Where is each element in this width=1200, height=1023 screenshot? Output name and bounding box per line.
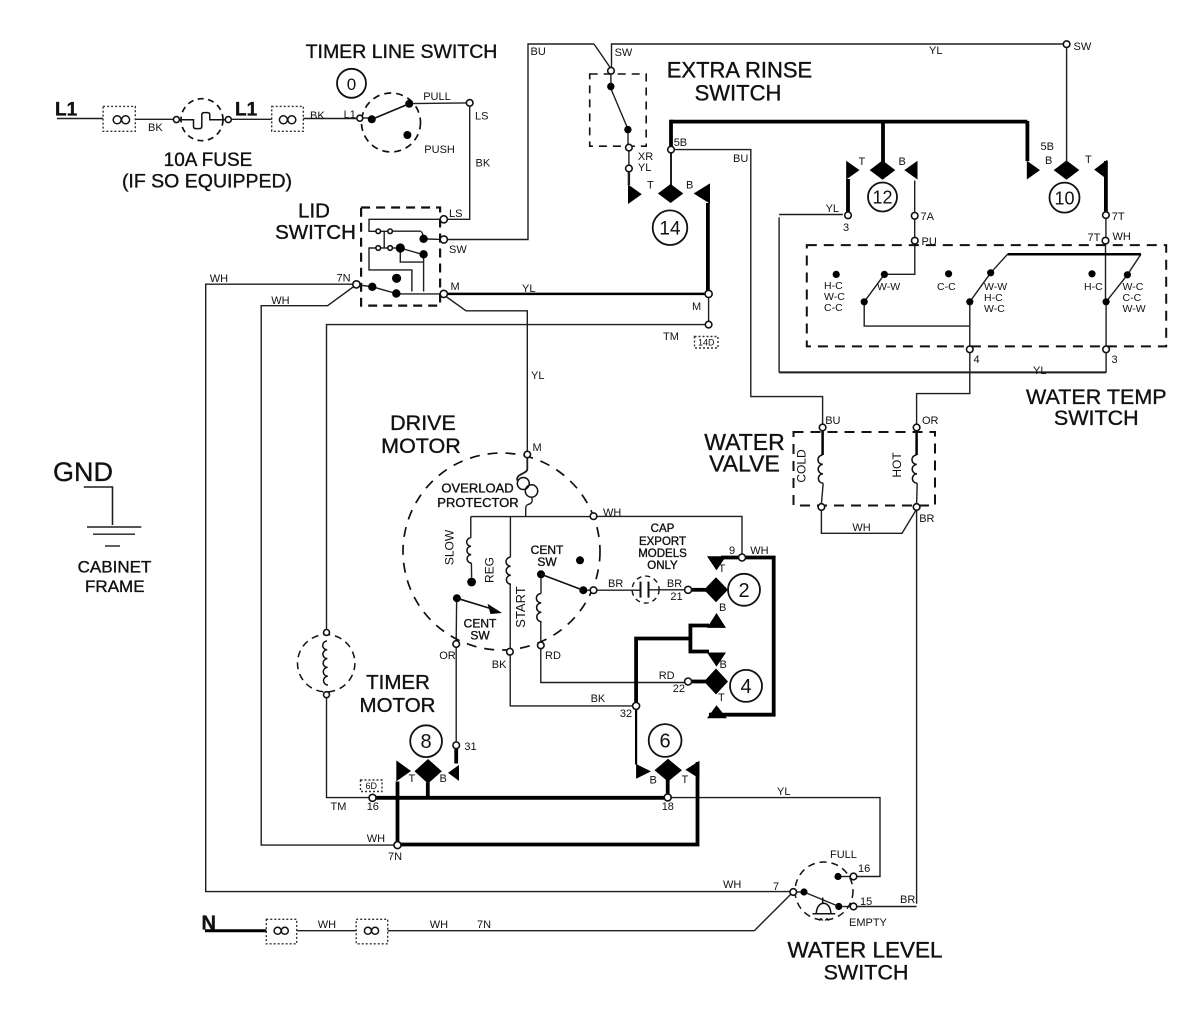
svg-text:7N: 7N bbox=[337, 273, 351, 285]
svg-text:WH: WH bbox=[367, 833, 385, 845]
svg-text:SW: SW bbox=[615, 47, 633, 59]
svg-text:8: 8 bbox=[421, 731, 432, 753]
svg-text:T: T bbox=[718, 692, 725, 704]
svg-text:H-C: H-C bbox=[1084, 281, 1103, 293]
svg-text:B: B bbox=[719, 602, 726, 614]
svg-text:MODELS: MODELS bbox=[638, 548, 687, 560]
svg-text:B: B bbox=[899, 156, 906, 168]
svg-text:YL: YL bbox=[777, 786, 790, 798]
svg-text:BK: BK bbox=[310, 110, 325, 122]
svg-text:BR: BR bbox=[900, 894, 915, 906]
svg-text:T: T bbox=[719, 563, 726, 575]
svg-text:RD: RD bbox=[659, 670, 675, 682]
svg-text:RD: RD bbox=[545, 650, 561, 662]
svg-text:SW: SW bbox=[537, 555, 557, 569]
svg-text:HOT: HOT bbox=[890, 452, 904, 478]
svg-text:YL: YL bbox=[638, 162, 651, 174]
svg-text:OVERLOAD: OVERLOAD bbox=[441, 481, 513, 496]
svg-text:18: 18 bbox=[662, 801, 674, 813]
svg-text:MOTOR: MOTOR bbox=[381, 434, 461, 458]
svg-text:SLOW: SLOW bbox=[443, 529, 457, 565]
svg-text:START: START bbox=[513, 586, 528, 627]
svg-text:BU: BU bbox=[825, 415, 840, 427]
svg-text:M: M bbox=[533, 442, 542, 454]
svg-text:WH: WH bbox=[603, 507, 621, 519]
svg-text:B: B bbox=[440, 773, 447, 785]
svg-text:BK: BK bbox=[591, 693, 606, 705]
svg-text:REG: REG bbox=[483, 557, 497, 583]
svg-text:B: B bbox=[720, 659, 727, 671]
svg-text:ONLY: ONLY bbox=[647, 560, 678, 572]
svg-text:L1: L1 bbox=[235, 100, 258, 121]
svg-text:2: 2 bbox=[738, 580, 749, 602]
svg-text:7A: 7A bbox=[921, 211, 935, 223]
svg-text:CABINET: CABINET bbox=[78, 558, 152, 577]
svg-text:16: 16 bbox=[858, 863, 870, 875]
svg-text:WH: WH bbox=[1113, 231, 1131, 243]
svg-text:M: M bbox=[451, 281, 460, 293]
svg-text:YL: YL bbox=[1033, 365, 1046, 377]
svg-text:YL: YL bbox=[522, 283, 535, 295]
svg-text:BK: BK bbox=[148, 122, 163, 134]
svg-text:MOTOR: MOTOR bbox=[360, 694, 436, 717]
svg-text:9: 9 bbox=[729, 545, 735, 557]
svg-text:BU: BU bbox=[531, 46, 546, 58]
svg-text:SWITCH: SWITCH bbox=[695, 81, 782, 106]
svg-text:CAP: CAP bbox=[651, 523, 675, 535]
svg-text:7: 7 bbox=[773, 881, 779, 893]
svg-text:5B: 5B bbox=[1041, 141, 1054, 153]
svg-text:T: T bbox=[409, 773, 416, 785]
svg-text:YL: YL bbox=[826, 203, 839, 215]
svg-text:7T: 7T bbox=[1112, 211, 1125, 223]
svg-text:YL: YL bbox=[531, 370, 544, 382]
svg-text:OR: OR bbox=[439, 650, 456, 662]
svg-text:VALVE: VALVE bbox=[709, 451, 780, 477]
svg-text:WATER LEVEL: WATER LEVEL bbox=[787, 938, 942, 963]
svg-text:PROTECTOR: PROTECTOR bbox=[437, 495, 518, 510]
svg-text:OR: OR bbox=[922, 415, 939, 427]
svg-text:PUSH: PUSH bbox=[424, 144, 455, 156]
svg-text:PU: PU bbox=[922, 236, 937, 248]
svg-text:WH: WH bbox=[271, 295, 289, 307]
svg-text:C-C: C-C bbox=[824, 302, 843, 314]
svg-text:7N: 7N bbox=[477, 919, 491, 931]
svg-text:0: 0 bbox=[347, 75, 356, 94]
svg-text:5B: 5B bbox=[674, 137, 687, 149]
svg-text:FRAME: FRAME bbox=[85, 577, 145, 596]
svg-text:LS: LS bbox=[449, 208, 462, 220]
svg-text:B: B bbox=[686, 179, 693, 191]
svg-text:WH: WH bbox=[723, 879, 741, 891]
svg-text:DRIVE: DRIVE bbox=[390, 411, 456, 435]
svg-text:7T: 7T bbox=[1088, 232, 1101, 244]
svg-text:BR: BR bbox=[608, 578, 623, 590]
svg-text:BR: BR bbox=[667, 578, 682, 590]
svg-text:WH: WH bbox=[852, 522, 870, 534]
svg-text:15: 15 bbox=[860, 896, 872, 908]
svg-text:TIMER: TIMER bbox=[366, 671, 430, 694]
svg-text:SWITCH: SWITCH bbox=[1054, 406, 1139, 430]
svg-text:T: T bbox=[1085, 154, 1092, 166]
svg-text:31: 31 bbox=[464, 741, 476, 753]
svg-text:L1: L1 bbox=[55, 100, 78, 121]
svg-text:6D: 6D bbox=[366, 781, 378, 791]
svg-text:L1: L1 bbox=[344, 109, 356, 121]
svg-text:C-C: C-C bbox=[937, 281, 956, 293]
svg-text:FULL: FULL bbox=[830, 849, 857, 861]
svg-text:W-W: W-W bbox=[1123, 303, 1146, 315]
svg-text:16: 16 bbox=[367, 801, 379, 813]
svg-text:SWITCH: SWITCH bbox=[824, 961, 909, 985]
svg-text:14: 14 bbox=[659, 219, 681, 240]
svg-text:TIMER LINE SWITCH: TIMER LINE SWITCH bbox=[306, 41, 498, 63]
svg-text:TM: TM bbox=[331, 801, 347, 813]
svg-text:WH: WH bbox=[750, 545, 768, 557]
svg-text:LID: LID bbox=[298, 200, 330, 223]
svg-text:PULL: PULL bbox=[423, 91, 451, 103]
svg-text:T: T bbox=[647, 180, 654, 192]
svg-text:WH: WH bbox=[430, 919, 448, 931]
svg-text:SW: SW bbox=[470, 629, 490, 643]
svg-text:M: M bbox=[692, 301, 701, 313]
svg-text:21: 21 bbox=[670, 591, 682, 603]
svg-text:EMPTY: EMPTY bbox=[849, 917, 888, 929]
svg-text:4: 4 bbox=[974, 354, 980, 366]
svg-text:10A FUSE: 10A FUSE bbox=[164, 150, 253, 171]
svg-text:BK: BK bbox=[492, 659, 507, 671]
svg-text:SW: SW bbox=[449, 244, 467, 256]
svg-text:BU: BU bbox=[733, 153, 748, 165]
svg-text:N: N bbox=[202, 913, 216, 935]
svg-text:TM: TM bbox=[663, 331, 679, 343]
svg-text:14D: 14D bbox=[698, 338, 715, 348]
svg-text:6: 6 bbox=[660, 731, 671, 753]
svg-text:W-W: W-W bbox=[877, 281, 900, 293]
svg-text:32: 32 bbox=[620, 708, 632, 720]
svg-text:12: 12 bbox=[872, 188, 892, 208]
svg-text:BK: BK bbox=[476, 158, 491, 170]
svg-text:EXTRA RINSE: EXTRA RINSE bbox=[667, 58, 812, 83]
svg-text:B: B bbox=[1045, 155, 1052, 167]
svg-text:BR: BR bbox=[919, 513, 934, 525]
svg-text:LS: LS bbox=[475, 111, 488, 123]
svg-text:SW: SW bbox=[1074, 41, 1092, 53]
svg-text:7N: 7N bbox=[388, 851, 402, 863]
svg-text:WH: WH bbox=[210, 273, 228, 285]
svg-text:10: 10 bbox=[1054, 188, 1074, 208]
svg-text:22: 22 bbox=[673, 683, 685, 695]
svg-text:COLD: COLD bbox=[795, 449, 809, 483]
svg-text:3: 3 bbox=[843, 222, 849, 234]
svg-text:W-C: W-C bbox=[984, 303, 1005, 315]
svg-text:4: 4 bbox=[740, 676, 751, 698]
svg-text:GND: GND bbox=[53, 457, 113, 487]
svg-text:EXPORT: EXPORT bbox=[639, 536, 686, 548]
svg-text:T: T bbox=[859, 156, 866, 168]
svg-text:SWITCH: SWITCH bbox=[275, 221, 356, 244]
svg-text:YL: YL bbox=[929, 45, 942, 57]
svg-text:B: B bbox=[650, 775, 657, 787]
svg-text:3: 3 bbox=[1112, 354, 1118, 366]
svg-text:T: T bbox=[682, 774, 689, 786]
svg-text:WH: WH bbox=[318, 919, 336, 931]
svg-text:(IF SO EQUIPPED): (IF SO EQUIPPED) bbox=[122, 171, 292, 193]
